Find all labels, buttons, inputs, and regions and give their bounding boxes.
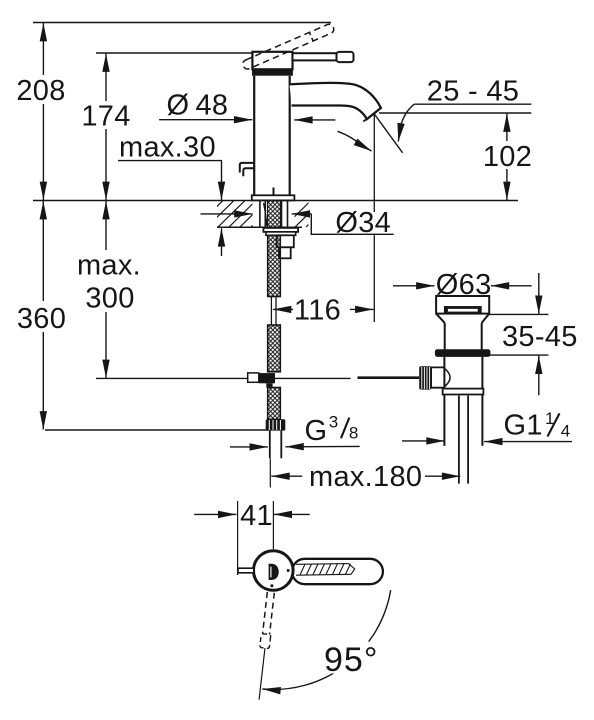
svg-text:35-45: 35-45 xyxy=(502,321,578,353)
svg-text:max.30: max.30 xyxy=(119,132,216,164)
curved arrow stream xyxy=(338,131,362,145)
wire ref line 174 top xyxy=(96,52,253,54)
wire ref line 208 top xyxy=(33,22,331,24)
top view spout stub xyxy=(238,568,253,573)
spout outlet lip xyxy=(363,119,367,121)
top view lever capsule xyxy=(292,559,383,584)
top view dot bottom xyxy=(270,584,273,587)
faucet head xyxy=(252,52,292,70)
dimension Ø34 xyxy=(201,214,394,234)
spout xyxy=(290,83,381,119)
dimension G1 1/4 xyxy=(402,440,572,443)
dashed lever (raised position) xyxy=(241,23,335,71)
drain tailpipe xyxy=(459,396,468,484)
drain neck xyxy=(445,323,482,350)
svg-text:4: 4 xyxy=(561,421,570,440)
pop-up rod right xyxy=(358,376,420,379)
leader arrow 25-45 xyxy=(401,104,414,125)
wire ref line 35-45 top xyxy=(489,313,548,315)
G3/8 nut xyxy=(266,419,286,430)
wire underline 25-45 xyxy=(414,103,531,105)
drain taper xyxy=(436,314,489,323)
wire ref line 102 top xyxy=(379,112,531,114)
dimension 41 xyxy=(194,500,310,575)
wire ref line 360 bottom xyxy=(45,429,268,431)
mounting flange under deck xyxy=(263,228,298,232)
svg-text:3: 3 xyxy=(329,412,338,431)
deck hatching left xyxy=(196,201,278,228)
faucet shank in hole xyxy=(260,201,288,228)
dimension Ø48 xyxy=(159,90,335,122)
thin rod section xyxy=(271,297,276,326)
pop-up rod inside body xyxy=(273,188,275,200)
top view dashed lever rotated xyxy=(254,592,276,700)
label G1 1/4 xyxy=(504,409,571,442)
label 95 degrees xyxy=(322,642,382,674)
pull rod hook xyxy=(240,163,255,176)
outlet extension line xyxy=(373,114,375,322)
faucet base xyxy=(252,195,295,200)
wire ref line 35-45 bottom xyxy=(490,354,548,356)
top view body circle xyxy=(253,551,293,591)
faucet body xyxy=(254,76,290,196)
svg-text:8: 8 xyxy=(349,424,358,443)
svg-text:360: 360 xyxy=(17,303,66,335)
dimension 208 xyxy=(15,23,68,200)
drain flange xyxy=(435,349,491,357)
dimension 35-45 xyxy=(502,273,578,395)
dimension max30 xyxy=(118,132,222,256)
braided hose segment 2 xyxy=(268,325,281,372)
dimension max300 xyxy=(74,201,142,378)
solid lever xyxy=(293,53,338,60)
wire deck top line xyxy=(33,200,518,202)
top view cartridge D shape xyxy=(269,564,279,580)
svg-text:95°: 95° xyxy=(324,641,378,679)
svg-text:G: G xyxy=(305,415,328,447)
dimension 102 xyxy=(482,114,534,201)
svg-text:174: 174 xyxy=(81,101,130,133)
dimension 360 xyxy=(15,201,68,430)
svg-text:41: 41 xyxy=(240,500,273,532)
knurled knob xyxy=(419,366,431,389)
braided hose segment 3 xyxy=(268,388,281,420)
svg-text:25 - 45: 25 - 45 xyxy=(427,76,519,108)
svg-text:max.180: max.180 xyxy=(309,461,422,493)
hose tail pipe xyxy=(270,431,282,459)
svg-text:max.: max. xyxy=(77,250,141,282)
svg-text:Ø 48: Ø 48 xyxy=(167,90,229,122)
stream direction line xyxy=(374,114,402,153)
drain ring band xyxy=(443,389,484,395)
wire deck bottom line xyxy=(217,226,302,228)
top view dot right xyxy=(287,569,290,572)
svg-text:G1: G1 xyxy=(504,410,543,442)
svg-text:208: 208 xyxy=(16,75,65,107)
label G3/8 xyxy=(305,412,359,447)
arc 95 degrees xyxy=(262,590,390,689)
pull rod curve in shank xyxy=(264,203,267,226)
drain body xyxy=(444,357,482,446)
braided hose segment 1 xyxy=(268,235,281,296)
svg-text:102: 102 xyxy=(483,141,532,173)
cross fitting xyxy=(248,373,259,382)
dimension max180 xyxy=(270,458,460,493)
top view lever inner detail xyxy=(296,564,355,576)
dimension 116 xyxy=(273,294,374,326)
label Ø34 xyxy=(331,212,393,234)
pop-up plug xyxy=(445,307,481,313)
wire ref line max300 bottom / pop-up rod left xyxy=(96,377,351,379)
svg-text:116: 116 xyxy=(294,294,341,326)
dimension Ø63 xyxy=(393,285,532,287)
rod boss xyxy=(431,367,444,387)
dimension G3/8 xyxy=(230,445,360,448)
dimension 174 xyxy=(80,54,132,201)
faucet head band xyxy=(252,70,293,76)
hose nipple fittings xyxy=(277,235,294,247)
svg-text:300: 300 xyxy=(85,283,134,315)
pop-up drain top cylinder xyxy=(436,296,489,314)
svg-text:Ø34: Ø34 xyxy=(335,207,391,239)
deck hatching right xyxy=(284,201,333,228)
